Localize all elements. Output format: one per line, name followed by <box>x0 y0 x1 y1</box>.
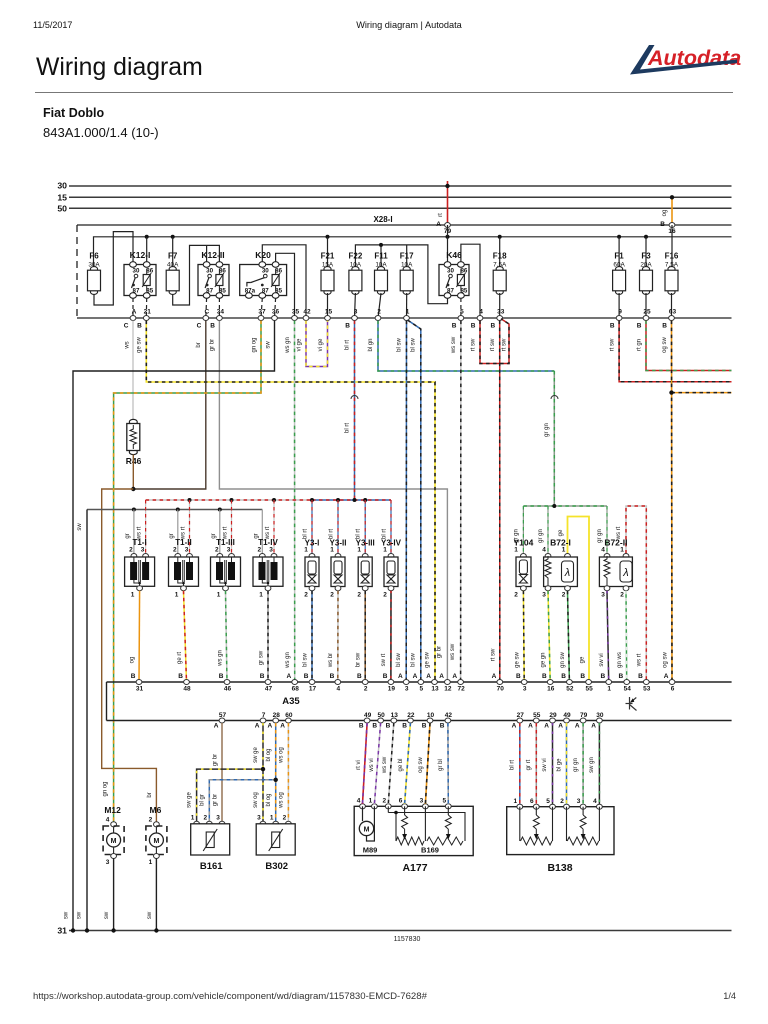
svg-text:gr bl: gr bl <box>438 759 444 771</box>
svg-text:30: 30 <box>133 268 140 275</box>
svg-text:4: 4 <box>106 817 110 824</box>
svg-text:13: 13 <box>431 686 439 693</box>
svg-text:B: B <box>131 673 136 680</box>
svg-text:1/4: 1/4 <box>723 991 736 1001</box>
svg-text:M: M <box>364 827 370 834</box>
svg-text:5: 5 <box>546 798 550 805</box>
accelerator pedal icon <box>626 697 637 711</box>
svg-text:ge rt: ge rt <box>177 652 183 664</box>
svg-text:1: 1 <box>270 815 274 822</box>
svg-text:5: 5 <box>460 309 464 316</box>
fuse output stubs <box>327 293 329 318</box>
svg-text:sw og: sw og <box>253 792 259 808</box>
svg-text:3: 3 <box>577 798 581 805</box>
coil supply bus ws rt <box>146 499 312 501</box>
svg-text:bl gn: bl gn <box>368 338 374 351</box>
svg-text:3: 3 <box>216 815 220 822</box>
svg-text:bl ge: bl ge <box>557 758 563 772</box>
wire sw M6 to bus 31 <box>155 859 157 931</box>
svg-text:A: A <box>558 723 563 730</box>
wire K20 pin30 to pin 42 <box>262 245 306 318</box>
svg-text:49: 49 <box>563 712 571 719</box>
svg-text:bl sw: bl sw <box>397 337 403 351</box>
wire rt sw pin 9 to right margin <box>619 321 731 382</box>
svg-text:2: 2 <box>382 798 386 805</box>
svg-text:B169: B169 <box>421 846 439 855</box>
fuse F1 60A <box>613 267 626 295</box>
svg-text:F21: F21 <box>321 252 335 261</box>
svg-text:2: 2 <box>377 309 381 316</box>
svg-text:A: A <box>492 673 497 680</box>
svg-text:B: B <box>178 673 183 680</box>
svg-text:19: 19 <box>388 686 396 693</box>
fuse F3 20A <box>640 267 653 295</box>
svg-text:gr rt: gr rt <box>526 759 532 770</box>
wire F6 output to K12-I pin 30 <box>94 232 133 305</box>
svg-text:4: 4 <box>593 798 597 805</box>
svg-text:gn ws: gn ws <box>617 652 623 668</box>
svg-text:A: A <box>528 723 533 730</box>
svg-text:60A: 60A <box>613 262 625 269</box>
svg-text:34: 34 <box>217 309 225 316</box>
svg-text:6: 6 <box>530 798 534 805</box>
X28 internal supply bus <box>94 237 732 267</box>
motor M89 <box>362 806 364 821</box>
svg-text:T1-I: T1-I <box>132 538 146 547</box>
svg-text:1: 1 <box>259 592 263 599</box>
wire br junction to M6 <box>102 489 157 822</box>
svg-text:br sw: br sw <box>356 652 362 667</box>
svg-text:A: A <box>512 723 517 730</box>
svg-text:85: 85 <box>460 287 467 294</box>
svg-text:ge sw: ge sw <box>137 337 143 353</box>
svg-text:22: 22 <box>407 712 415 719</box>
wire sw ge A35 7 to B302 pin 3 and B161 pin 1 <box>262 723 264 822</box>
svg-text:ws gn: ws gn <box>285 337 291 354</box>
svg-text:3: 3 <box>523 686 527 693</box>
pin79 riser into box <box>447 225 449 237</box>
wire ws sw pin 5 to A35 pin 72 <box>460 321 462 682</box>
potentiometer B169 <box>387 806 389 812</box>
svg-text:46: 46 <box>224 686 232 693</box>
svg-text:B: B <box>383 673 388 680</box>
svg-text:63: 63 <box>669 309 677 316</box>
ignition coil T1-II <box>177 510 179 554</box>
svg-text:30A: 30A <box>88 262 100 269</box>
svg-text:og sw: og sw <box>663 652 669 668</box>
wire gr br A35 57 to B161 pin 3 <box>221 723 223 822</box>
svg-text:30: 30 <box>596 712 604 719</box>
svg-text:1: 1 <box>383 547 387 554</box>
wire gn og pin 37 to M12 <box>114 321 261 822</box>
svg-text:30: 30 <box>447 268 454 275</box>
svg-text:ws: ws <box>125 341 131 349</box>
wire bl sw pin 1 to A35 pin 3 <box>405 321 407 682</box>
svg-text:og: og <box>130 657 136 664</box>
svg-text:M6: M6 <box>149 805 161 815</box>
svg-text:2: 2 <box>560 798 564 805</box>
svg-text:gr gn: gr gn <box>597 529 603 543</box>
svg-text:49: 49 <box>364 712 372 719</box>
svg-text:1: 1 <box>357 547 361 554</box>
svg-text:1: 1 <box>607 686 611 693</box>
pin16 riser to F16 <box>671 225 673 267</box>
injector Y3-IV <box>390 500 392 554</box>
svg-text:1: 1 <box>514 547 518 554</box>
svg-text:2: 2 <box>514 592 518 599</box>
wire ws rt B72-II to A35 pin 53 <box>626 506 646 682</box>
svg-text:λ: λ <box>564 567 570 579</box>
svg-text:7: 7 <box>262 712 266 719</box>
wire br pin C down-left to junction <box>133 321 206 489</box>
wire sw pin 36 to bus 31 <box>73 321 275 931</box>
svg-text:bl gr: bl gr <box>200 794 206 806</box>
svg-text:35: 35 <box>292 309 300 316</box>
svg-text:sw vi: sw vi <box>542 758 548 771</box>
svg-text:gr br: gr br <box>437 646 443 658</box>
svg-text:79: 79 <box>580 712 588 719</box>
K46 contact feed stub <box>447 237 449 262</box>
ignition coil T1-I <box>133 510 135 554</box>
A35 top pin row <box>136 680 142 685</box>
svg-text:bl og: bl og <box>266 793 272 806</box>
svg-text:rt vi: rt vi <box>356 760 362 770</box>
svg-text:ge sw: ge sw <box>515 652 521 668</box>
svg-text:F22: F22 <box>349 252 363 261</box>
svg-text:6: 6 <box>399 798 403 805</box>
wire bl gn pin 2 to gr gn riser <box>378 321 554 371</box>
svg-text:33: 33 <box>497 309 505 316</box>
wire ge sw Y104 to A35 pin 3 <box>522 591 525 682</box>
svg-text:sw: sw <box>104 911 110 919</box>
wire ge B72-I to A35 pin 55 <box>568 517 590 683</box>
svg-text:42: 42 <box>303 309 311 316</box>
svg-text:3: 3 <box>269 547 273 554</box>
svg-text:M12: M12 <box>104 805 121 815</box>
ECM A35 <box>107 681 732 683</box>
svg-text:T1-III: T1-III <box>216 538 235 547</box>
svg-text:bl rt: bl rt <box>345 340 351 350</box>
svg-text:br: br <box>196 342 202 347</box>
svg-text:843A1.000/1.4 (10-): 843A1.000/1.4 (10-) <box>43 125 159 140</box>
svg-text:rt sw: rt sw <box>490 338 496 351</box>
svg-text:55: 55 <box>585 686 593 693</box>
svg-text:57: 57 <box>219 712 227 719</box>
svg-text:rt: rt <box>438 213 444 217</box>
svg-text:B: B <box>440 723 445 730</box>
svg-text:bl sw: bl sw <box>303 652 309 666</box>
svg-text:K20: K20 <box>255 250 271 260</box>
wire K46 pin87 to fuses F22 F11 F17 <box>355 245 447 304</box>
svg-text:55: 55 <box>533 712 541 719</box>
B138 potentiometers <box>519 807 521 841</box>
svg-text:4: 4 <box>542 547 546 554</box>
svg-text:B302: B302 <box>265 861 288 872</box>
svg-text:4: 4 <box>601 547 605 554</box>
wire gr br pin 34 to A35 pin 12 <box>219 321 447 682</box>
wire bl rt pin 3 to injector bus <box>354 321 356 500</box>
fuse feed stubs <box>172 237 174 267</box>
svg-text:bl sw: bl sw <box>411 337 417 351</box>
svg-text:53: 53 <box>643 686 651 693</box>
wire ws pin A to R46 <box>132 321 134 420</box>
svg-text:72: 72 <box>457 686 465 693</box>
svg-text:bl sw: bl sw <box>411 652 417 666</box>
ignition coil T1-IV <box>261 510 263 554</box>
svg-text:X28-I: X28-I <box>373 215 392 224</box>
svg-text:B: B <box>490 323 495 330</box>
svg-text:10A: 10A <box>375 262 387 269</box>
svg-text:C: C <box>197 323 202 330</box>
svg-text:31: 31 <box>136 686 144 693</box>
svg-text:A: A <box>436 221 441 228</box>
svg-text:bl sw: bl sw <box>396 652 402 666</box>
svg-text:37: 37 <box>258 309 266 316</box>
svg-text:B: B <box>637 323 642 330</box>
svg-text:sw: sw <box>147 911 153 919</box>
svg-text:rt sw: rt sw <box>610 338 616 351</box>
svg-text:A: A <box>575 723 580 730</box>
svg-text:30: 30 <box>206 268 213 275</box>
pedal sensor B138 <box>507 807 614 855</box>
svg-text:bl rt: bl rt <box>382 529 388 539</box>
svg-text:vi ge: vi ge <box>318 338 324 351</box>
svg-text:2: 2 <box>620 592 624 599</box>
svg-text:ws vi: ws vi <box>369 758 375 772</box>
svg-text:2: 2 <box>357 592 361 599</box>
svg-text:3: 3 <box>141 547 145 554</box>
svg-text:B138: B138 <box>547 862 572 874</box>
svg-text:sw ge: sw ge <box>253 747 259 763</box>
svg-text:2: 2 <box>203 815 207 822</box>
svg-text:B: B <box>638 673 643 680</box>
fuse F6 30A <box>88 267 101 295</box>
svg-text:B: B <box>600 673 605 680</box>
svg-text:A35: A35 <box>282 696 300 707</box>
svg-text:M: M <box>111 838 117 845</box>
svg-text:rt sw: rt sw <box>471 338 477 351</box>
svg-text:A: A <box>255 723 260 730</box>
svg-text:sw gn: sw gn <box>589 757 595 773</box>
wire og sw branch to right margin <box>672 392 732 394</box>
svg-text:B: B <box>210 323 215 330</box>
svg-text:F7: F7 <box>168 252 178 261</box>
svg-text:A: A <box>591 723 596 730</box>
svg-text:1: 1 <box>131 592 135 599</box>
svg-text:F11: F11 <box>374 252 388 261</box>
svg-text:gr br: gr br <box>213 794 219 806</box>
svg-text:A: A <box>267 723 272 730</box>
svg-text:F17: F17 <box>400 252 414 261</box>
svg-text:A: A <box>452 673 457 680</box>
svg-text:6: 6 <box>671 686 675 693</box>
wire og sw pin 63 to A35 pin 6 <box>671 321 674 682</box>
svg-text:B: B <box>542 673 547 680</box>
svg-text:sw rt: sw rt <box>381 653 387 666</box>
svg-text:T1-II: T1-II <box>175 538 191 547</box>
wire bl og A35 28 to B302 pin 1 and B161 pin 2 <box>275 723 277 822</box>
svg-text:ge gn: ge gn <box>541 652 547 667</box>
svg-text:B: B <box>137 323 142 330</box>
svg-text:1157830: 1157830 <box>394 936 421 943</box>
wire vi ge loop pins 42-15 <box>306 321 328 367</box>
svg-text:A: A <box>413 673 418 680</box>
svg-text:17: 17 <box>309 686 317 693</box>
svg-text:42: 42 <box>445 712 453 719</box>
svg-text:sw: sw <box>266 341 272 349</box>
svg-text:K12-II: K12-II <box>201 250 224 260</box>
svg-text:52: 52 <box>566 686 574 693</box>
svg-text:1: 1 <box>369 798 373 805</box>
injector output wires <box>311 591 313 682</box>
svg-text:B: B <box>452 323 457 330</box>
svg-text:A177: A177 <box>402 862 427 874</box>
svg-text:27: 27 <box>517 712 525 719</box>
svg-text:F3: F3 <box>641 252 651 261</box>
svg-text:9: 9 <box>618 309 622 316</box>
svg-text:rt sw: rt sw <box>502 338 508 351</box>
svg-text:vi ge: vi ge <box>297 338 303 351</box>
svg-text:ge: ge <box>558 529 564 536</box>
svg-text:bl rt: bl rt <box>510 760 516 770</box>
svg-text:A: A <box>439 673 444 680</box>
svg-text:3: 3 <box>106 859 110 866</box>
svg-text:5: 5 <box>419 686 423 693</box>
svg-text:20A: 20A <box>640 262 652 269</box>
svg-text:86: 86 <box>275 268 282 275</box>
wire rt sw pin 33 to A35 pin 70 <box>499 321 501 682</box>
svg-text:4: 4 <box>357 798 361 805</box>
wire K46 pin86 to pin 4 <box>461 244 480 318</box>
K12-I coil feed stub <box>146 237 148 262</box>
wire ws gn pin 35 to A35 pin 68 <box>294 321 296 682</box>
wire ws og A35 60 to B302 pin 2 <box>287 723 289 822</box>
svg-text:ws sw: ws sw <box>382 756 388 774</box>
svg-text:B: B <box>359 723 364 730</box>
svg-text:og: og <box>662 210 668 217</box>
svg-text:2: 2 <box>383 592 387 599</box>
svg-text:3: 3 <box>354 309 358 316</box>
svg-text:bl og: bl og <box>266 748 272 761</box>
svg-text:54: 54 <box>624 686 632 693</box>
svg-text:3: 3 <box>405 686 409 693</box>
svg-text:rt gn: rt gn <box>637 339 643 351</box>
svg-text:B: B <box>660 221 665 228</box>
svg-text:B: B <box>357 673 362 680</box>
svg-text:gn og: gn og <box>252 337 258 352</box>
svg-text:28: 28 <box>273 712 281 719</box>
svg-text:40A: 40A <box>167 262 179 269</box>
svg-text:sw vi: sw vi <box>599 653 605 666</box>
wire og sw feed to pin 16 <box>671 197 673 225</box>
svg-text:bl rt: bl rt <box>303 529 309 539</box>
wire sw M12 to bus 31 <box>113 859 115 931</box>
fuse F11 10A <box>375 267 388 295</box>
svg-text:B: B <box>402 723 407 730</box>
svg-text:2: 2 <box>215 547 219 554</box>
svg-text:ws gn: ws gn <box>285 652 291 669</box>
svg-text:1: 1 <box>217 592 221 599</box>
svg-text:7,5A: 7,5A <box>493 262 507 269</box>
A177 wires from A35 <box>363 723 368 804</box>
svg-text:87: 87 <box>206 287 213 294</box>
svg-text:10A: 10A <box>401 262 413 269</box>
svg-text:gr gn: gr gn <box>573 758 579 772</box>
svg-text:B: B <box>422 723 427 730</box>
svg-text:B: B <box>610 323 615 330</box>
svg-text:B: B <box>219 673 224 680</box>
svg-text:λ: λ <box>622 567 628 579</box>
svg-text:F6: F6 <box>89 252 99 261</box>
wire K20 pin86 to pin 35 <box>276 253 295 318</box>
wire rt sw pin 4 to pin 33 loop <box>480 319 509 364</box>
svg-text:25: 25 <box>643 309 651 316</box>
svg-text:1: 1 <box>149 859 153 866</box>
svg-text:B72-II: B72-II <box>604 538 627 548</box>
svg-text:15A: 15A <box>322 262 334 269</box>
svg-text:48: 48 <box>183 686 191 693</box>
svg-text:3: 3 <box>601 592 605 599</box>
svg-text:ws br: ws br <box>328 653 334 668</box>
injector Y3-I <box>311 500 313 554</box>
svg-text:bl rt: bl rt <box>329 529 335 539</box>
svg-text:11/5/2017: 11/5/2017 <box>33 20 72 30</box>
svg-text:gr: gr <box>125 533 131 538</box>
svg-text:C: C <box>204 309 209 316</box>
svg-text:13: 13 <box>391 712 399 719</box>
svg-text:60: 60 <box>285 712 293 719</box>
svg-text:ws og: ws og <box>279 747 285 764</box>
svg-text:21: 21 <box>144 309 152 316</box>
svg-text:B: B <box>618 673 623 680</box>
svg-text:K46: K46 <box>446 250 462 260</box>
A35 bottom pin row <box>219 718 225 723</box>
svg-text:B: B <box>330 673 335 680</box>
svg-text:3: 3 <box>542 592 546 599</box>
svg-text:K12-I: K12-I <box>130 250 151 260</box>
svg-text:15: 15 <box>325 309 333 316</box>
svg-text:br: br <box>147 792 153 797</box>
svg-text:30: 30 <box>57 181 67 191</box>
svg-text:F1: F1 <box>614 252 624 261</box>
svg-text:F16: F16 <box>665 252 679 261</box>
svg-text:2: 2 <box>129 547 133 554</box>
wire bl sw pin 1 to A35 pin 5 <box>408 320 421 682</box>
svg-text:3: 3 <box>420 798 424 805</box>
svg-text:B: B <box>372 723 377 730</box>
svg-text:2: 2 <box>257 547 261 554</box>
svg-text:og sw: og sw <box>662 337 668 353</box>
svg-text:50: 50 <box>377 712 385 719</box>
svg-text:B: B <box>662 323 667 330</box>
svg-text:sw: sw <box>77 523 83 531</box>
svg-text:Wiring diagram: Wiring diagram <box>36 54 203 81</box>
svg-text:B72-I: B72-I <box>550 538 571 548</box>
svg-text:86: 86 <box>460 268 467 275</box>
svg-text:2: 2 <box>364 686 368 693</box>
svg-text:B161: B161 <box>200 861 223 872</box>
svg-text:3: 3 <box>227 547 231 554</box>
svg-text:50: 50 <box>57 203 67 213</box>
svg-text:5: 5 <box>442 798 446 805</box>
svg-text:2: 2 <box>562 592 566 599</box>
svg-text:A: A <box>664 673 669 680</box>
svg-text:1: 1 <box>562 547 566 554</box>
svg-text:36: 36 <box>272 309 280 316</box>
svg-text:B: B <box>516 673 521 680</box>
svg-text:87a: 87a <box>245 287 256 294</box>
svg-text:C: C <box>124 323 129 330</box>
